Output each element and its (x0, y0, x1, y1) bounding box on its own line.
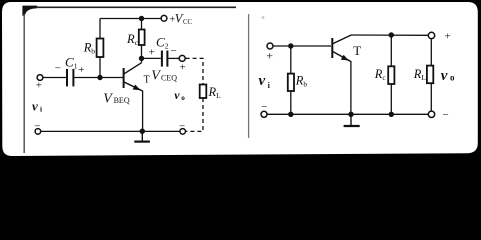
white slide card (2, 2, 478, 156)
svg-text:C: C (65, 55, 74, 70)
svg-text:+: + (36, 80, 42, 92)
resistor R_b (97, 39, 104, 58)
svg-text:+: + (149, 46, 155, 58)
svg-text:−: − (261, 101, 267, 113)
svg-text:T: T (353, 43, 361, 58)
capacitor C1 (67, 69, 73, 86)
svg-text:+: + (445, 31, 451, 42)
wire: Rc top vertical (390, 35, 392, 66)
junction dot bottom / ground (348, 112, 353, 117)
ground (left) (134, 133, 150, 141)
svg-text:+: + (180, 61, 186, 73)
junction dot base node (97, 75, 102, 80)
svg-text:L: L (421, 73, 426, 82)
wire: C2 to output terminal (168, 57, 179, 59)
junction dot bottom / Rb (288, 112, 293, 117)
svg-text:v: v (259, 73, 266, 89)
svg-text:v: v (174, 88, 180, 102)
svg-text:o: o (181, 94, 185, 102)
svg-text:V: V (103, 91, 113, 106)
svg-text:−: − (171, 45, 177, 57)
svg-text:2: 2 (165, 41, 169, 50)
wire: input terminal to C1 (43, 77, 66, 79)
dashed load branch (186, 58, 203, 131)
wire: input to base (273, 45, 331, 47)
dashed wire: output to corner (186, 58, 203, 84)
svg-text:L: L (216, 91, 221, 100)
junction dot bottom rail / ground (140, 129, 145, 134)
svg-text:CEQ: CEQ (161, 73, 177, 82)
dashed wire: RL bottom to corner to terminal (186, 98, 203, 131)
transistor T (right) (332, 35, 351, 62)
wire: RL bottom vertical (430, 83, 432, 111)
capacitor C2 (162, 51, 168, 67)
svg-text:−: − (55, 62, 61, 74)
wire: Rb top vertical (290, 46, 292, 74)
wire: RL top vertical (430, 39, 432, 66)
wire: C1 to base (with junction) (74, 77, 123, 79)
transistor T (left) (124, 63, 143, 91)
emitter arrowhead (left transistor) (133, 85, 141, 91)
junction dot bottom / Rc (389, 112, 394, 117)
wire: Rc bottom vertical (390, 84, 392, 114)
wire: emitter vertical (350, 61, 352, 114)
junction dot collector node (139, 56, 144, 61)
svg-text:BEQ: BEQ (114, 96, 130, 105)
resistor R_L (left, in dashed branch) (200, 85, 207, 99)
terminal: output (179, 55, 185, 61)
base bar (331, 38, 333, 58)
emitter diagonal (333, 52, 351, 62)
wire: Rc top vertical (141, 19, 143, 30)
svg-text:−: − (179, 120, 185, 132)
svg-text:C: C (156, 35, 165, 50)
resistor R_b (right) (288, 74, 294, 91)
terminal: bottom-right (right ckt) (428, 111, 434, 117)
terminal: input (left) (37, 75, 43, 81)
junction dot base node (right) (288, 43, 293, 48)
ground (right) (344, 114, 360, 126)
wire: Rb branch vertical bottom (99, 57, 101, 78)
svg-text:o: o (450, 73, 455, 83)
frame corner blob (top-left of figure border) (22, 6, 37, 16)
frame left border line (23, 14, 25, 153)
terminal: bottom-left (right ckt) (261, 111, 267, 117)
svg-text:b: b (91, 47, 95, 56)
junction dot top rail / Rc (139, 16, 144, 21)
wire: Rc bottom to collector (141, 45, 143, 63)
svg-text:V: V (151, 68, 161, 83)
junction dot collector rail / Rc (389, 32, 394, 37)
svg-text:+: + (266, 48, 273, 62)
resistor R_c (right) (388, 66, 394, 84)
wire: bottom rail (267, 113, 428, 115)
svg-text:i: i (40, 105, 42, 113)
svg-text:b: b (303, 80, 307, 89)
emitter diagonal (124, 82, 143, 91)
collector diagonal (124, 63, 141, 74)
wire: collector top rail (351, 34, 429, 36)
collector diagonal (333, 35, 352, 44)
terminal: output top-right (428, 32, 434, 38)
svg-text:1: 1 (74, 61, 78, 70)
svg-text:−: − (34, 120, 40, 132)
separator line between circuits (248, 14, 250, 138)
resistor R_c (139, 30, 145, 46)
wire: bottom rail (41, 130, 180, 132)
wire: Rb bottom vertical (290, 91, 292, 114)
svg-text:+: + (78, 64, 84, 76)
scan artifact dot (262, 16, 265, 19)
terminal: bottom-right (180, 129, 186, 135)
wire: collector node to C2 (142, 57, 161, 59)
terminal: input (right) (267, 43, 273, 49)
wire: Rb branch vertical top (99, 19, 101, 39)
svg-text:v: v (441, 68, 448, 84)
svg-text:−: − (443, 109, 449, 121)
base bar (123, 68, 125, 88)
svg-text:T: T (144, 74, 150, 85)
wire: top rail (100, 18, 161, 20)
svg-text:v: v (32, 98, 38, 113)
wire: emitter vertical (142, 91, 144, 132)
frame top border line (35, 6, 236, 8)
terminal: +Vcc (161, 15, 167, 21)
terminal: bottom-left (35, 129, 41, 135)
emitter arrowhead (right transistor) (341, 55, 349, 61)
svg-text:CC: CC (183, 19, 193, 26)
resistor R_L (right) (427, 66, 433, 84)
